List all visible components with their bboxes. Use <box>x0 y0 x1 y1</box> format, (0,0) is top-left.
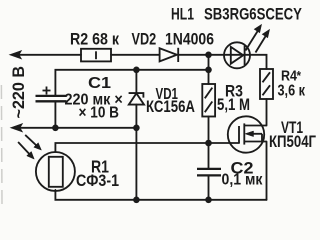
svg-text:*: * <box>297 68 302 83</box>
zener VD1 <box>129 93 144 105</box>
AC arrow top <box>10 51 22 59</box>
wire rail2 <box>55 70 208 96</box>
wire top rail left <box>18 54 81 56</box>
svg-text:5,1 М: 5,1 М <box>217 96 250 115</box>
svg-text:× 10 В: × 10 В <box>79 105 120 122</box>
svg-text:SB3RG6SCECY: SB3RG6SCECY <box>204 5 302 24</box>
photoresistor R1 <box>36 152 75 191</box>
LED arrow 1 <box>246 25 262 51</box>
wire VD1 branch upper <box>135 70 137 93</box>
resistor R2 <box>81 49 111 62</box>
capacitor C1 <box>36 96 67 101</box>
wire gate line <box>55 143 239 152</box>
svg-text:КС156А: КС156А <box>146 98 195 117</box>
AC arrow bottom <box>11 124 23 132</box>
svg-text:0,1 мк: 0,1 мк <box>222 171 263 189</box>
svg-text:VD2: VD2 <box>132 31 157 49</box>
LED arrow 2 <box>256 30 270 53</box>
svg-text:HL1: HL1 <box>171 6 194 24</box>
transistor VT1 <box>228 116 267 152</box>
node VD1/bottom rail <box>133 197 140 204</box>
svg-text:R2 68 к: R2 68 к <box>70 31 119 49</box>
node C1/rail3 <box>52 125 59 132</box>
wire link top rail to rail2 <box>208 55 210 70</box>
VT1 substrate arrowhead <box>245 131 254 137</box>
node rail2/R3 <box>205 67 212 74</box>
wire VD1 branch lower to bottom rail <box>135 105 137 200</box>
wire C2 top <box>208 143 210 168</box>
LED HL1 <box>224 42 250 68</box>
wire rail3 neutral <box>19 127 136 129</box>
node C2/bottom rail <box>205 197 212 204</box>
wire R4 bottom to drain <box>266 99 268 126</box>
C1 plus <box>43 87 51 95</box>
wire bottom rail <box>55 190 266 200</box>
svg-text:C1: C1 <box>88 74 111 92</box>
R1 photo arrow 1 <box>25 135 41 150</box>
wire VD2 to corner and down to R4 <box>178 55 266 69</box>
R1 photo arrow 2 <box>18 142 34 159</box>
wire C2 bottom <box>208 176 210 200</box>
node VD2/LED/R3 top <box>205 52 212 59</box>
wire R3 bottom to gate <box>208 117 210 144</box>
node gate/R3/C2 <box>205 140 212 147</box>
resistor R4 <box>260 69 273 99</box>
wire source down <box>266 142 268 200</box>
wire R3 top <box>208 70 210 84</box>
svg-text:1N4006: 1N4006 <box>165 31 214 49</box>
wire C1 bottom <box>54 101 56 128</box>
scan edge artifact <box>0 85 3 204</box>
capacitor C2 <box>197 169 221 176</box>
svg-text:КП504Г: КП504Г <box>269 132 317 151</box>
wire R2 to VD2 <box>111 54 160 56</box>
svg-text:3,6 к: 3,6 к <box>278 82 306 100</box>
svg-text:СФ3-1: СФ3-1 <box>76 172 119 190</box>
node rail2/VD1 <box>133 67 140 74</box>
resistor R3 <box>202 84 215 117</box>
svg-text:~220 В: ~220 В <box>10 66 28 119</box>
node rail3/VD1 <box>133 125 140 132</box>
diode VD2 <box>160 48 179 62</box>
